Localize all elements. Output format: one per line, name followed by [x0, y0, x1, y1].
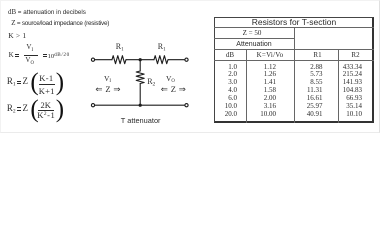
- big paren right R2: [56, 97, 64, 122]
- table header K=Vi/Vo: [246, 52, 294, 59]
- table line: Z=50 row bottom (left half): [214, 38, 294, 39]
- table data column dB: [200, 64, 237, 119]
- input terminal (top left): [91, 58, 94, 61]
- formula: R1 = Z ((K-1)/(K+1)): [7, 77, 16, 86]
- table data column R1: [280, 64, 323, 119]
- table cell Z = 50: [212, 30, 292, 37]
- table line: title row bottom: [214, 27, 374, 28]
- wire node A down to R2: [139, 60, 141, 71]
- table header R2: [338, 52, 373, 59]
- resistor R2 (vertical): [136, 71, 144, 83]
- impedance arrows left: Z looking into input: [95, 85, 120, 94]
- note line 1: dB definition: [8, 10, 86, 17]
- note line 2: Z definition: [11, 20, 109, 27]
- table: Resistors for T-section: [214, 17, 374, 124]
- node B junction dot (bottom): [139, 104, 142, 107]
- big paren right R1: [56, 70, 64, 95]
- label VO: [166, 75, 175, 83]
- big paren left R1: [30, 70, 38, 95]
- table line: header row bottom: [214, 60, 374, 61]
- table title: [214, 18, 374, 27]
- outer faint frame: [0, 0, 380, 133]
- table line: column separator dB|K: [246, 49, 247, 122]
- bottom rail wire: [95, 104, 185, 106]
- ground-side terminal (bottom right): [185, 104, 188, 107]
- note line 3: K > 1: [8, 32, 26, 40]
- ground-side terminal (bottom left): [91, 104, 94, 107]
- resistor R1 (right): [154, 56, 168, 64]
- table line: header row top: [214, 49, 374, 50]
- label R2: [147, 78, 155, 86]
- formula: R2 = Z (2K/(K^2-1)): [7, 104, 16, 113]
- table line: column separator K|R1: [294, 27, 295, 123]
- output terminal (top right): [185, 58, 188, 61]
- table header dB: [214, 52, 246, 59]
- formula: K = VI/VO = 10^dB/20: [9, 52, 14, 59]
- table cell Attenuation: [214, 41, 294, 48]
- table line: column separator R1|R2: [338, 49, 339, 122]
- caption: [121, 117, 161, 124]
- wire R1a to node A: [126, 59, 154, 61]
- node A junction dot: [139, 58, 142, 61]
- table data column K=Vi/Vo: [230, 64, 276, 119]
- wire input to R1a: [95, 59, 112, 61]
- label R1 (left resistor): [116, 43, 124, 51]
- resistor R1 (left): [112, 56, 126, 64]
- label VI: [104, 75, 111, 83]
- wire R1b to output terminal: [168, 59, 185, 61]
- big paren left R2: [30, 97, 38, 122]
- table data column R2: [320, 64, 362, 119]
- label R1 (right resistor): [158, 43, 166, 51]
- impedance arrows right: Z looking into output: [161, 85, 186, 94]
- wire R2 to bottom rail: [139, 84, 141, 106]
- circuit schematic: T attenuator: [85, 42, 200, 112]
- table header R1: [294, 52, 341, 59]
